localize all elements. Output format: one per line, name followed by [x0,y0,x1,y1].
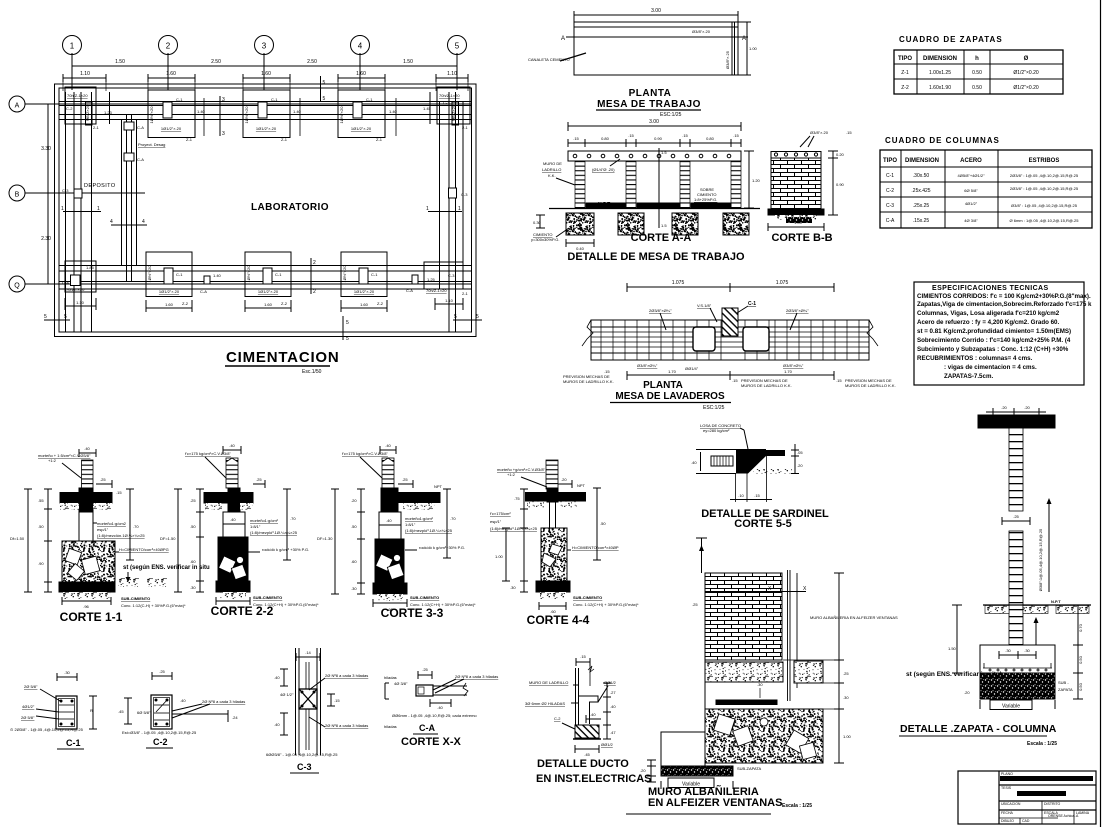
svg-text:1.60x1.90: 1.60x1.90 [929,85,951,91]
left small dims [640,760,656,782]
svg-text:CORTE 4-4: CORTE 4-4 [527,613,590,627]
svg-text:0.50: 0.50 [972,70,982,76]
double edge right [731,22,733,75]
rebar verticals [305,662,307,750]
svg-text:CORTE B-B: CORTE B-B [771,232,832,244]
svg-text:ey=280 kg/cm²: ey=280 kg/cm² [703,428,730,433]
column section C-1 [10,670,97,749]
svg-text:2Ø Nº8 a cada 3 hiladas: 2Ø Nº8 a cada 3 hiladas [202,699,245,704]
left dimension column [41,104,52,284]
svg-text:3Ø 6mm Ø2 HILADAS: 3Ø 6mm Ø2 HILADAS [525,701,565,706]
svg-text:Esc.1/50: Esc.1/50 [302,369,322,375]
svg-text:EN ALFEIZER VENTANAS: EN ALFEIZER VENTANAS [648,797,782,809]
column C-3 right wall [449,188,469,198]
svg-text:1:8+25%P.G.: 1:8+25%P.G. [694,197,717,202]
detalle de sardinel corte 5-5 [691,423,829,530]
svg-text:.50: .50 [38,524,44,529]
svg-text:C-1: C-1 [366,97,373,102]
svg-text:C-1: C-1 [66,738,81,748]
svg-text:5: 5 [346,320,349,326]
svg-text:5: 5 [454,314,457,320]
svg-text:0.90: 0.90 [654,136,663,141]
right dimension [746,22,748,75]
svg-text:EN INST.ELECTRICAS: EN INST.ELECTRICAS [536,773,652,785]
sobrecimiento white box [223,512,245,537]
svg-text:ØØ6mm - 1@.05 ,4@.10,R@.25; ca: ØØ6mm - 1@.05 ,4@.10,R@.25; cada extremo [392,713,477,718]
svg-text:.20: .20 [1024,405,1030,410]
svg-text:Est=Ø3/8" - 1@.05 ,4@.10,2@.15: Est=Ø3/8" - 1@.05 ,4@.10,2@.15,R@.25 [122,730,197,735]
svg-text:.20: .20 [797,463,803,468]
svg-text:Columnas, Vigas, Losa aligerad: Columnas, Vigas, Losa aligerada f'c=210 … [917,310,1060,317]
svg-text:TESIS: TESIS [1001,786,1012,790]
svg-text:3.00: 3.00 [649,119,659,125]
svg-text:1: 1 [97,206,100,212]
section line B through middle bay [659,148,667,228]
svg-text:K.K.: K.K. [548,173,556,178]
svg-text:PLANTA: PLANTA [643,380,683,391]
top dim [296,656,320,658]
svg-text:B: B [15,192,20,199]
corte B-B [768,130,852,244]
svg-text:DETALLE .ZAPATA - COLUMNA: DETALLE .ZAPATA - COLUMNA [900,723,1057,735]
label st segun [123,565,210,582]
svg-text:ESC:1/25: ESC:1/25 [703,405,725,411]
svg-text:5: 5 [44,314,47,320]
svg-text:.30: .30 [64,670,70,675]
top dim [576,661,590,663]
svg-text:C-2: C-2 [66,106,73,111]
svg-text:MB/Z×20: MB/Z×20 [85,104,90,121]
npt slab fills [586,203,626,208]
svg-text:PLANO: PLANO [1001,772,1013,776]
svg-text:f'c×175/cm²: f'c×175/cm² [490,511,511,516]
svg-text:1Ø½"×20: 1Ø½"×20 [147,265,152,283]
label sobre cemento [694,187,717,202]
column ladder with break [226,458,238,488]
svg-text:3: 3 [222,131,225,137]
svg-text:.90: .90 [38,561,44,566]
title CIMENTACION [225,349,340,375]
footing Z-1 grid3 top [243,90,290,142]
svg-text:.15x.25: .15x.25 [913,218,930,224]
brick wall [771,158,821,209]
svg-text:morteño1:g/cm2: morteño1:g/cm2 [97,521,127,526]
svg-text:morteño1:g/cm²: morteño1:g/cm² [250,518,279,523]
speck strip under [753,469,792,474]
label rockfill [405,545,465,550]
svg-text:Z-1: Z-1 [901,70,909,76]
svg-text:4: 4 [358,42,363,51]
footing Z-1 grid4 top [338,90,385,142]
dim .40 mid [586,712,601,723]
row lines [999,784,1096,786]
svg-text:Ø3/8"×Ø¼": Ø3/8"×Ø¼" [637,363,658,368]
svg-text:ACERO: ACERO [960,158,982,164]
bottom dims [730,493,772,500]
svg-text:.25: .25 [692,602,698,607]
svg-text:CAD: CAD [1022,819,1030,823]
svg-text:Z-2: Z-2 [281,301,288,306]
svg-text:ZAPATAS-7.5cm.: ZAPATAS-7.5cm. [944,373,993,380]
svg-text:1.40: 1.40 [389,109,398,114]
svg-text:1Ø1/2"×.20: 1Ø1/2"×.20 [258,289,279,294]
svg-text:0.30: 0.30 [533,220,542,225]
top dim [986,405,1046,416]
svg-text:CORTE A-A: CORTE A-A [631,232,692,244]
svg-text:.15: .15 [580,654,586,659]
svg-text:.25: .25 [190,498,196,503]
svg-text:DETALLE DE MESA DE TRABAJO: DETALLE DE MESA DE TRABAJO [567,251,745,263]
svg-text:5: 5 [476,314,479,320]
svg-text:.50: .50 [190,524,196,529]
svg-text:2: 2 [313,260,316,266]
svg-text:4Ø1/2": 4Ø1/2" [22,704,35,709]
sobrecimiento band [204,493,253,504]
section mark 5 top [321,76,326,102]
footing blob 1 [566,213,594,235]
svg-text:70h/Z-1×20: 70h/Z-1×20 [439,93,460,98]
muro albanileria en alfeizer ventanas [626,538,898,814]
left dim cimiento [531,215,569,242]
svg-text:Variable: Variable [1002,704,1020,710]
svg-text:1.60: 1.60 [264,302,273,307]
column C-1 hatched [722,308,738,336]
svg-text:Q: Q [14,283,20,290]
svg-text:.40: .40 [229,443,235,448]
svg-text:LABORATORIO: LABORATORIO [251,202,329,213]
svg-text:.30: .30 [190,585,196,590]
sobrecimiento: center black, bar right [381,488,398,512]
speck strip left [60,503,79,510]
corte A-A detalle mesa de trabajo [531,119,761,263]
zapata box [980,645,1055,673]
svg-text:CORTE 3-3: CORTE 3-3 [381,606,444,620]
svg-text:0.80: 0.80 [706,136,715,141]
svg-text:.20: .20 [1001,405,1007,410]
ground line NPT [549,208,760,210]
column section C-3 [266,648,368,773]
svg-text:1.10: 1.10 [80,71,90,77]
right wall band [440,92,464,332]
svg-text:3.00: 3.00 [651,8,661,14]
svg-text:ESTRIBOS: ESTRIBOS [1029,158,1060,164]
svg-text:1: 1 [458,206,461,212]
svg-text:0.50: 0.50 [1078,682,1083,691]
left dim [691,450,705,474]
sobrecimiento black band [60,493,112,504]
section line X-X [705,591,806,593]
column width dim at break [1002,514,1030,525]
svg-text:SUB-CIMIENTO: SUB-CIMIENTO [121,596,150,601]
svg-text:70h/Z-1×20: 70h/Z-1×20 [67,93,88,98]
svg-text:f'c×175 kg/cm²×C.V.Ø3/8": f'c×175 kg/cm²×C.V.Ø3/8" [185,451,231,456]
leader rebar in slab [592,159,620,172]
svg-text:2Ø 5/8": 2Ø 5/8" [24,684,38,689]
brick leg 4 [731,161,741,208]
svg-text:.20: .20 [964,690,970,695]
svg-text:MUROS DE LADRILLO K.K.: MUROS DE LADRILLO K.K. [845,383,896,388]
left dim tall [701,538,703,573]
svg-text:SUB-ZAPATA: SUB-ZAPATA [737,766,762,771]
svg-text:C-3: C-3 [297,762,312,772]
svg-text:C-A: C-A [137,157,144,162]
left top labels [490,511,546,531]
svg-text:2-1: 2-1 [462,291,469,296]
svg-text:CANALETA CEMENTO: CANALETA CEMENTO [528,57,570,62]
section line A-A [566,36,748,38]
svg-text:C-A: C-A [406,288,413,293]
svg-text:.40: .40 [274,722,280,727]
svg-text:rockóló k g/cm³+30% P.G.: rockóló k g/cm³+30% P.G. [419,545,465,550]
left step outline [661,660,705,766]
svg-text:Sobrecimiento Corrido : f'c=14: Sobrecimiento Corrido : f'c=140 kg/cm2+2… [917,337,1071,344]
footing blob 3 [672,213,698,235]
corner footing bottom-right [424,262,469,310]
svg-text:SUB-CIMIENTO: SUB-CIMIENTO [410,595,439,600]
svg-text:2Ø Nº8 a cada 3 hiladas: 2Ø Nº8 a cada 3 hiladas [455,674,498,679]
left labels muro ladrillo [542,161,575,185]
deposito east wall [122,115,166,281]
svg-text:Z-1: Z-1 [376,137,383,142]
svg-text:70h/Z-1×20: 70h/Z-1×20 [426,288,447,293]
top dimension [627,286,834,288]
footing blob 4 [723,213,749,235]
svg-text:(1:8)/mezpló³.1Ø.¼×¼×25: (1:8)/mezpló³.1Ø.¼×¼×25 [250,530,298,535]
svg-text:MURO DE: MURO DE [543,161,562,166]
svg-text:2Ø3/8"×Ø¼": 2Ø3/8"×Ø¼" [786,308,809,313]
right dim column [603,683,616,739]
foundation plan CIMENTACION [9,36,482,376]
cuadro de columnas table [880,136,1092,228]
big stipple block [705,709,823,763]
dim extension lines top footings [63,74,468,91]
svg-text:C-A: C-A [200,289,207,294]
svg-text:A: A [742,36,746,42]
column C-A bottom wall 2 [406,275,436,293]
especificaciones tecnicas box [914,282,1092,385]
sink hole right [743,327,769,351]
thin column [550,501,556,529]
column ladder tall [546,460,558,489]
svg-text:1.5: 1.5 [661,223,667,228]
svg-text:MURO ALBAÑILERIA EN ALFEIZER V: MURO ALBAÑILERIA EN ALFEIZER VENTANAS [810,615,898,620]
svg-text:.15: .15 [733,133,739,138]
bottom dim [575,745,599,757]
table top outline [574,22,738,75]
section mark 4-4 [110,219,147,225]
svg-text:Zapatas,Viga de cimentacion,So: Zapatas,Viga de cimentacion,Sobrecim.Ref… [917,301,1092,308]
leader label mortero [38,453,91,478]
right dim 0.90 [828,151,845,215]
svg-text:.15: .15 [682,133,688,138]
prevision labels [563,369,896,388]
label sub-cimiento [121,596,186,608]
svg-text:.50: .50 [600,521,606,526]
svg-text:.15: .15 [334,698,340,703]
section mark 1-1 right [426,206,462,212]
black bar 1 [1000,776,1093,781]
right dims [791,444,803,474]
svg-text:.25: .25 [843,671,849,676]
solado black bar [716,700,777,705]
svg-text:1Ø½"×20: 1Ø½"×20 [339,106,344,124]
svg-text:esp/1": esp/1" [97,527,109,532]
column ladder with break [382,458,394,488]
svg-text:H=CIMIENTO/corr³×40ØPG: H=CIMIENTO/corr³×40ØPG [119,547,169,552]
svg-text:DF=1.30: DF=1.30 [317,536,333,541]
svg-text:⊙ 2Ø3/8" - 1@.05 ,4@.10,2@.15,: ⊙ 2Ø3/8" - 1@.05 ,4@.10,2@.15,R@.25 [10,727,84,732]
svg-text:.60: .60 [190,559,196,564]
footing Z-2 grid4 bottom [341,252,387,312]
bottom dim 0.40 [566,239,594,251]
corte 2-2 foundation section [160,443,319,618]
bottom dim 1.00 [768,220,824,231]
svg-text:Z-2: Z-2 [901,85,909,91]
planta mesa de lavaderos [563,280,896,411]
mesh horizontals [591,332,869,347]
grid bubble Q [9,276,471,292]
svg-text:1.5: 1.5 [661,150,667,155]
top dim .40 [79,452,96,454]
top beam black [978,415,1055,428]
svg-text:C-A: C-A [886,218,895,224]
top slab [771,152,821,159]
svg-text:2Ø3/8" : 1@.05 ,4@.10,2@.15,R@: 2Ø3/8" : 1@.05 ,4@.10,2@.15,R@.25 [1010,186,1079,191]
svg-text:1Ø½"×20: 1Ø½"×20 [342,265,347,283]
svg-text:UBICACION: UBICACION [1001,802,1021,806]
column square with X [299,689,317,709]
svg-text:.30: .30 [757,682,763,687]
column section C-2 [118,669,245,748]
svg-text:.25: .25 [402,477,408,482]
svg-text:ZAPATA: ZAPATA [1058,687,1073,692]
svg-text:1.85: 1.85 [86,265,95,270]
svg-text:0.80: 0.80 [601,136,610,141]
svg-text:.25: .25 [1013,514,1019,519]
svg-text:R: R [90,708,93,713]
right dims [1073,605,1083,699]
svg-text:C-2: C-2 [554,716,561,721]
svg-text:1.10: 1.10 [76,300,85,305]
svg-text:h: h [975,56,979,62]
bottom dim [539,602,566,614]
svg-text:2Ø Nº8 a cada 3 hiladas: 2Ø Nº8 a cada 3 hiladas [325,673,368,678]
svg-text:PLANTA: PLANTA [629,88,672,99]
variable dim [980,700,1055,710]
sub-zapata label [1058,680,1073,692]
svg-text:st = 0.81 Kg/cm2.profundidad: st = 0.81 Kg/cm2.profundidad cimiento= 1… [917,328,1071,335]
svg-text:esp/1": esp/1" [490,519,502,524]
svg-text:C-1: C-1 [371,272,378,277]
side speck strips right [118,578,140,587]
svg-text:2-1: 2-1 [93,125,100,130]
svg-text:st (según ENS. verificar in si: st (según ENS. verificar in situ) [906,671,1002,678]
beam band outline [591,320,869,360]
label cimiento corrido [115,547,169,552]
svg-text:1.00: 1.00 [749,46,758,51]
svg-text:morteño +g/cm²×C.V.Ø3/8": morteño +g/cm²×C.V.Ø3/8" [497,467,546,472]
svg-text:2.50: 2.50 [307,59,317,65]
svg-text:1.40: 1.40 [213,273,222,278]
svg-text:ORENSE Achica..A: ORENSE Achica..A [1048,814,1079,818]
svg-text:Ø3/8":1@.05,4@.10,2@.15,R@.25: Ø3/8":1@.05,4@.10,2@.15,R@.25 [1038,528,1043,591]
svg-text:.75: .75 [514,496,520,501]
svg-text:MESA DE TRABAJO: MESA DE TRABAJO [597,99,701,110]
svg-text:1Ø1/2"×.20: 1Ø1/2"×.20 [161,126,182,131]
corte 1-1 foundation section [10,446,210,624]
svg-text:4: 4 [142,219,145,225]
svg-text:.25: .25 [422,667,428,672]
svg-text:DISTRITO: DISTRITO [1044,802,1061,806]
sub dimensions [568,133,741,147]
svg-text:.30: .30 [843,695,849,700]
right dims [593,488,606,560]
svg-text:Z-2: Z-2 [182,301,189,306]
white column [79,512,93,541]
top dimension row [72,59,457,70]
section mark 1-1 left [61,206,101,212]
svg-text:.14: .14 [305,650,311,655]
svg-text:.30: .30 [510,585,516,590]
svg-text:1.40: 1.40 [293,109,302,114]
svg-text:1.70: 1.70 [668,369,677,374]
detalle ducto en inst electricas [525,654,652,785]
svg-text:6Ø 5/8": 6Ø 5/8" [964,188,978,193]
label rockfill [248,547,309,552]
svg-text:.15: .15 [628,133,634,138]
svg-text:V.S.1/8": V.S.1/8" [697,303,712,308]
svg-text:Ø3/8"×Ø¼": Ø3/8"×Ø¼" [783,363,804,368]
svg-text:Acero de refuerzo : fy = 4,20: Acero de refuerzo : fy = 4,200 Kg/cm2. G… [917,319,1059,326]
corte 4-4 foundation section [490,460,639,627]
col dividers [1041,801,1043,824]
svg-text:CORTE 5-5: CORTE 5-5 [734,518,791,530]
svg-text:.30: .30 [1024,648,1030,653]
svg-text:H=CIMIENTO/corr³×40ØP: H=CIMIENTO/corr³×40ØP [572,545,619,550]
svg-text:.40: .40 [84,446,90,451]
svg-text:ESC:1/25: ESC:1/25 [660,112,682,118]
svg-text:2Ø3/8" : 1@.05 ,4@.10,2@.15,R@: 2Ø3/8" : 1@.05 ,4@.10,2@.15,R@.25 [1010,173,1079,178]
svg-text:1.60: 1.60 [261,71,271,77]
brick leg 2 [626,161,636,208]
svg-text:DEPOSITO: DEPOSITO [84,183,116,189]
svg-text:Subcimiento y Subzapatas : Co: Subcimiento y Subzapatas : Conc. 1:12 (C… [917,346,1069,353]
svg-text:MB/Z×20: MB/Z×20 [451,104,456,121]
bottom dim [373,599,407,612]
svg-text:C-3: C-3 [461,192,468,197]
footing blob 2 [618,213,644,235]
svg-text:+1:2: +1:2 [48,458,57,463]
svg-text:RECUBRIMIENTOS : columnas= 4: RECUBRIMIENTOS : columnas= 4 cms. [917,355,1033,362]
svg-text:4: 4 [110,219,113,225]
svg-text:1.60: 1.60 [360,302,369,307]
svg-text:ØØ1/2: ØØ1/2 [601,742,614,747]
svg-text:4Ø 3/8": 4Ø 3/8" [964,218,978,223]
break mark left [582,320,593,360]
svg-text:1Ø1/2"×.20: 1Ø1/2"×.20 [159,289,180,294]
rocks [542,544,562,567]
cuadro de zapatas table [894,35,1063,94]
slab outline left [700,449,736,451]
brick leg 1 [575,161,585,208]
left wall band [66,92,92,332]
svg-text:.10: .10 [738,493,744,498]
column ladder upper [1009,428,1023,511]
svg-text:CIMENTACION: CIMENTACION [226,349,340,366]
svg-text:2-1: 2-1 [462,125,469,130]
svg-text:morteño + 1:5/cm²×C.V.Ø3/8": morteño + 1:5/cm²×C.V.Ø3/8" [38,453,91,458]
svg-text:.30: .30 [1005,648,1011,653]
